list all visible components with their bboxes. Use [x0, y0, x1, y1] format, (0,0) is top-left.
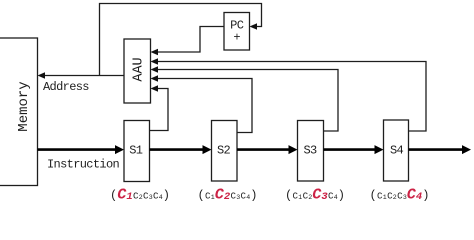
- svg-text:(C1C2C3C4): (C1C2C3C4): [110, 185, 170, 203]
- svg-text:(C1C2C3C4): (C1C2C3C4): [285, 185, 345, 203]
- svg-text:+: +: [233, 31, 240, 45]
- svg-text:S2: S2: [217, 144, 231, 158]
- svg-text:(C1C2C3C4): (C1C2C3C4): [198, 185, 258, 203]
- svg-text:Address: Address: [43, 80, 89, 94]
- svg-text:S3: S3: [303, 144, 317, 158]
- svg-text:S4: S4: [390, 144, 404, 158]
- svg-text:Instruction: Instruction: [47, 158, 120, 172]
- svg-text:Memory: Memory: [16, 81, 32, 131]
- svg-text:S1: S1: [129, 144, 143, 158]
- svg-text:(C1C2C3C4): (C1C2C3C4): [370, 185, 430, 203]
- svg-text:AAU: AAU: [131, 57, 146, 81]
